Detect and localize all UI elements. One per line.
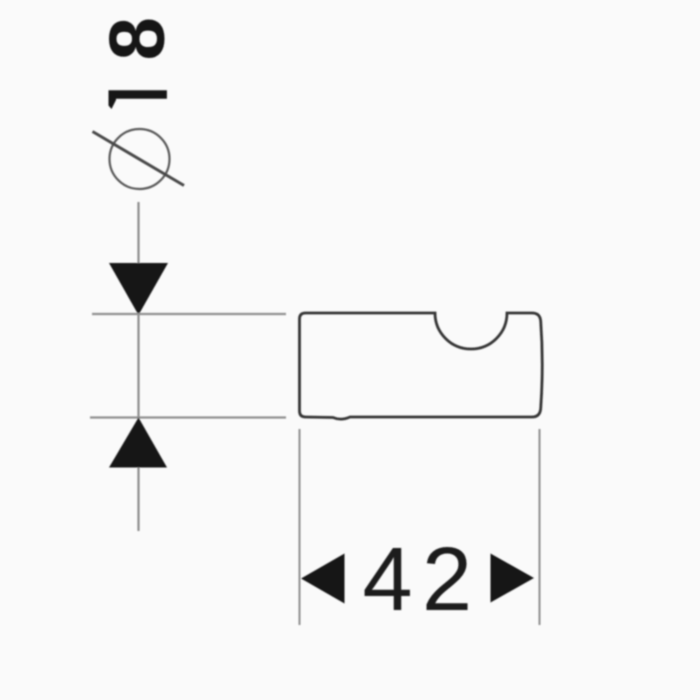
svg-text:42: 42	[363, 530, 482, 630]
right extension line (42 dim)	[539, 429, 541, 625]
diameter symbol circle	[110, 129, 170, 189]
svg-text:8: 8	[93, 17, 181, 60]
hook profile outline	[300, 313, 543, 419]
arrowhead left	[301, 554, 345, 604]
vertical dimension line	[137, 202, 139, 531]
top extension line	[92, 313, 286, 315]
arrowhead right	[491, 554, 535, 603]
bottom extension line	[90, 416, 286, 418]
left extension line (42 dim)	[299, 429, 301, 625]
diameter symbol slash	[93, 132, 185, 186]
dimension label digit 1 (rotated, drawn)	[109, 90, 167, 109]
arrowhead down	[109, 263, 168, 315]
arrowhead up	[109, 418, 167, 468]
